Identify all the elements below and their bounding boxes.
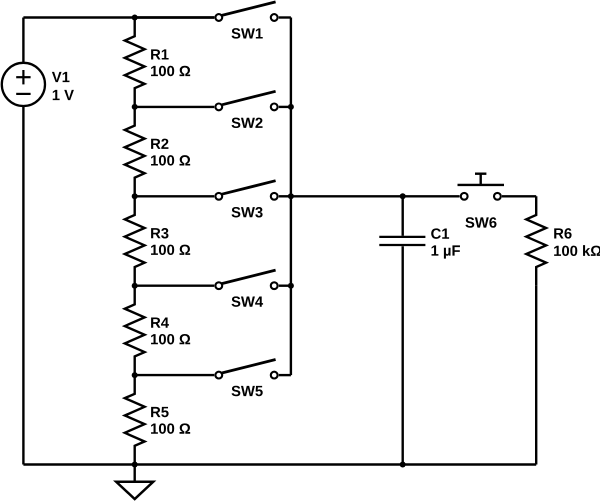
label V1 [52, 72, 70, 82]
wire tap to SW5 [135, 374, 215, 376]
label SW1 [232, 28, 263, 38]
resistor R4 [125, 286, 145, 375]
wire tap to SW4 [135, 285, 215, 287]
resistor R2 [125, 107, 145, 196]
label R1 [151, 49, 169, 59]
value 100 kΩ [554, 245, 600, 256]
wire left rail upper [22, 18, 24, 63]
pushbutton SW6 [458, 174, 505, 200]
node junction ground [132, 462, 138, 468]
node junction top of R1 [132, 15, 138, 21]
switch SW4 [215, 270, 290, 289]
label R6 [554, 228, 571, 238]
wire tap to SW1 [135, 16, 215, 18]
ground [116, 465, 153, 500]
value 100 Ω (R2) [151, 155, 190, 165]
value 100 Ω (R5) [151, 423, 190, 433]
label C1 [431, 228, 449, 238]
node junction R4-R5 [132, 372, 138, 378]
label R2 [151, 139, 168, 149]
wire top rail [23, 16, 214, 18]
value 100 Ω (R1) [151, 66, 190, 76]
wire left rail lower [22, 106, 24, 465]
label SW5 [232, 386, 263, 396]
wire R6 to bottom rail [535, 286, 537, 465]
resistor R5 [125, 375, 145, 464]
node junction bus SW2 [288, 104, 294, 110]
wire SW6 to R6 [502, 195, 536, 197]
label SW6 [465, 217, 496, 227]
wire tap to SW2 [135, 106, 215, 108]
wire node row to SW6 [291, 195, 460, 197]
label R4 [151, 318, 169, 328]
node junction C1 top [400, 193, 406, 199]
wire right bus [290, 18, 292, 376]
value 100 Ω (R3) [151, 245, 190, 255]
node junction bus SW4 [288, 283, 294, 289]
wire tap to SW3 [135, 195, 215, 197]
label R5 [151, 407, 169, 417]
node junction R1-R2 [132, 104, 138, 110]
node junction C1 bottom [400, 462, 406, 468]
resistor R3 [125, 196, 145, 285]
value 1 V [53, 90, 74, 100]
label SW2 [232, 118, 263, 128]
node junction R3-R4 [132, 283, 138, 289]
switch SW5 [215, 360, 290, 379]
value 1 µF [432, 245, 460, 258]
resistor R6 [526, 196, 546, 285]
label R3 [151, 228, 168, 239]
resistor R1 [125, 18, 145, 107]
label SW3 [232, 207, 263, 218]
switch SW3 [215, 181, 290, 200]
value 100 Ω (R4) [151, 334, 190, 344]
node junction bus SW3 [288, 193, 294, 199]
switch SW1 [215, 2, 290, 21]
wire bottom rail [23, 463, 536, 465]
node junction R2-R3 [132, 193, 138, 199]
switch SW2 [215, 91, 290, 110]
voltage source V1 [2, 63, 45, 106]
label SW4 [232, 296, 264, 306]
capacitor C1 [379, 196, 425, 464]
